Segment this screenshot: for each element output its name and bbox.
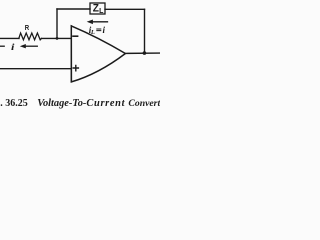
svg-text:i: i — [103, 25, 106, 35]
svg-text:Voltage-To-: Voltage-To- — [37, 98, 87, 109]
svg-text:R: R — [25, 23, 30, 32]
svg-text:i: i — [11, 43, 15, 53]
svg-text:L: L — [90, 29, 95, 36]
svg-text:L: L — [99, 8, 104, 15]
svg-text:. 36.25: . 36.25 — [0, 98, 28, 109]
svg-text:Converter: Converter — [128, 98, 160, 109]
svg-text:Current: Current — [86, 98, 125, 109]
